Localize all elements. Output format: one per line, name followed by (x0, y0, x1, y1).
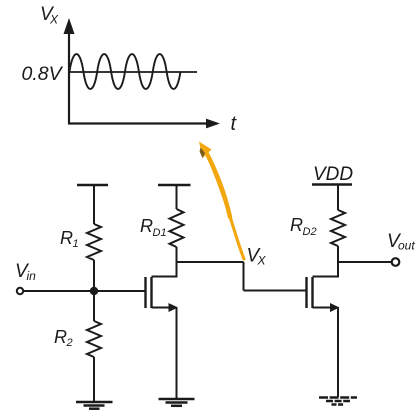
svg-text:X: X (257, 254, 267, 268)
svg-text:in: in (27, 269, 37, 283)
svg-text:R: R (140, 216, 153, 236)
svg-text:X: X (49, 13, 59, 27)
svg-text:2: 2 (66, 337, 73, 349)
svg-text:R: R (290, 215, 303, 235)
svg-text:R: R (60, 228, 73, 248)
svg-text:VDD: VDD (313, 164, 353, 185)
svg-text:out: out (398, 239, 415, 253)
svg-text:0.8V: 0.8V (22, 63, 64, 85)
svg-text:R: R (54, 327, 67, 347)
svg-text:1: 1 (73, 238, 79, 250)
svg-text:D2: D2 (303, 226, 317, 238)
svg-text:D1: D1 (153, 227, 167, 239)
